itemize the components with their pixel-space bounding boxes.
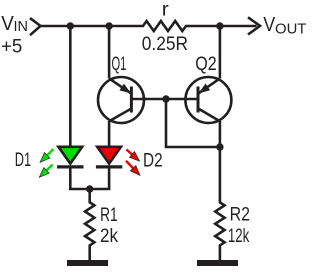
- svg-text:12k: 12k: [228, 225, 250, 247]
- svg-text:OUT: OUT: [275, 22, 307, 38]
- svg-text:D2: D2: [143, 150, 163, 172]
- svg-text:R2: R2: [230, 204, 250, 226]
- svg-text:R1: R1: [100, 204, 118, 226]
- svg-text:r: r: [162, 0, 170, 21]
- svg-text:Q2: Q2: [195, 53, 216, 75]
- svg-text:V: V: [263, 13, 275, 36]
- svg-text:Q1: Q1: [112, 53, 127, 75]
- svg-text:IN: IN: [14, 19, 29, 35]
- svg-text:+5: +5: [1, 35, 22, 57]
- svg-text:2k: 2k: [100, 225, 118, 247]
- svg-text:V: V: [1, 12, 14, 35]
- svg-text:0.25R: 0.25R: [142, 33, 188, 55]
- svg-text:D1: D1: [15, 149, 31, 171]
